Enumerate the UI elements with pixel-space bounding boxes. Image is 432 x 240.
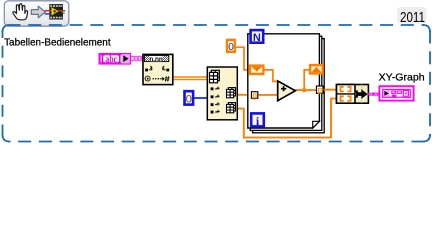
svg-text:abc: abc [105, 54, 117, 65]
svg-text:N: N [253, 32, 261, 44]
svg-text:n.nn: n.nn [149, 56, 163, 63]
svg-text:0: 0 [186, 94, 192, 106]
svg-text:[]: [] [318, 88, 322, 95]
svg-text:Tabellen-Bedienelement: Tabellen-Bedienelement [4, 38, 111, 49]
svg-text:2011: 2011 [400, 9, 425, 26]
svg-text:0: 0 [228, 42, 234, 53]
svg-text:XY-Graph: XY-Graph [379, 73, 425, 84]
svg-text:[]: [] [253, 93, 257, 100]
